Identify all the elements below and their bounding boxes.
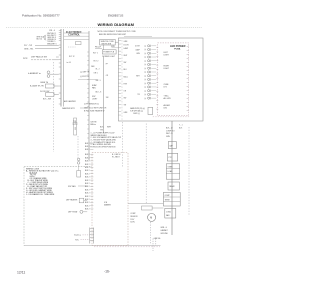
svg-text:FAN tw: FAN tw xyxy=(90,123,96,126)
freezer compartment dashed border left xyxy=(23,167,25,246)
compressor name labels xyxy=(130,213,138,223)
page number xyxy=(104,270,110,274)
wire row divider xyxy=(78,79,98,81)
svg-text:B-CASE TH-TW: B-CASE TH-TW xyxy=(30,85,44,88)
svg-text:DEF TSTAT: DEF TSTAT xyxy=(68,211,78,214)
compressor terminal cluster xyxy=(163,192,180,206)
door harness entry wire xyxy=(111,46,118,48)
svg-text:COND: COND xyxy=(166,211,172,213)
svg-text:BLK 2: BLK 2 xyxy=(85,196,90,198)
ice maker lower pin ladder xyxy=(90,228,94,244)
svg-text:60 Hz: 60 Hz xyxy=(130,222,135,224)
ice maker pin labels xyxy=(85,143,93,210)
svg-text:6 - W DOOR OPEN POSITION: 6 - W DOOR OPEN POSITION xyxy=(91,147,117,149)
svg-text:BLK 2: BLK 2 xyxy=(85,154,90,156)
svg-text:LOAD: LOAD xyxy=(168,170,173,173)
svg-text:tw 14: tw 14 xyxy=(67,61,71,64)
svg-text:BLK 2: BLK 2 xyxy=(85,199,90,201)
header separator rule xyxy=(6,27,202,29)
defrost feed labels xyxy=(112,154,120,159)
svg-text:POWER PCB: POWER PCB xyxy=(103,52,115,54)
title WIRING DIAGRAM xyxy=(98,22,135,27)
svg-text:BLK 2: BLK 2 xyxy=(85,186,90,188)
svg-text:Y - 1: Y - 1 xyxy=(179,124,183,126)
svg-text:BLK 2: BLK 2 xyxy=(85,149,90,151)
ambient thermistor RT1 xyxy=(28,71,59,78)
svg-text:WHT: WHT xyxy=(124,55,128,57)
compressor motor M1 xyxy=(142,206,164,221)
freezer light socket xyxy=(77,165,81,177)
LED power PCBA dashed enclosure xyxy=(158,43,189,116)
svg-text:MAKER: MAKER xyxy=(104,204,111,207)
svg-text:12/11: 12/11 xyxy=(17,271,25,275)
svg-text:BLK 2: BLK 2 xyxy=(85,205,90,207)
svg-text:LED POWER: LED POWER xyxy=(170,44,186,48)
harness connector P1 xyxy=(37,35,47,41)
svg-text:WTR: WTR xyxy=(23,58,28,60)
svg-text:CN1 - 6: CN1 - 6 xyxy=(49,30,55,32)
svg-text:FRZ FAN: FRZ FAN xyxy=(68,185,76,188)
svg-text:LIGHT: LIGHT xyxy=(164,55,170,57)
svg-text:th AMBIENT tw: th AMBIENT tw xyxy=(28,72,41,75)
svg-text:BLK - 8: BLK - 8 xyxy=(96,91,102,93)
main board edge connector J1 xyxy=(59,29,64,107)
svg-text:EW28BS71IS: EW28BS71IS xyxy=(108,15,124,18)
ice maker dashed enclosure xyxy=(92,153,128,246)
svg-text:BLK 2: BLK 2 xyxy=(85,170,90,172)
dispenser switch S1 xyxy=(23,56,59,60)
evap fan labels xyxy=(92,84,98,101)
svg-text:W - 2: W - 2 xyxy=(96,68,100,70)
svg-text:BLK 2: BLK 2 xyxy=(85,183,90,185)
svg-text:WHT - N: WHT - N xyxy=(166,133,173,135)
svg-text:BLK 2: BLK 2 xyxy=(85,146,90,148)
svg-text:OVER: OVER xyxy=(168,166,174,168)
fresh food harness bus xyxy=(103,56,105,133)
defrost thermostat S4 xyxy=(68,210,87,213)
svg-text:RELAY: RELAY xyxy=(169,185,175,188)
dispenser connector CN2 xyxy=(144,45,156,100)
wire color tags xyxy=(100,127,112,132)
svg-text:COMP: COMP xyxy=(130,213,136,215)
line cord connector xyxy=(95,47,102,49)
svg-text:BLK 2: BLK 2 xyxy=(85,202,90,204)
svg-text:DISP PADDLE SW: DISP PADDLE SW xyxy=(31,56,47,59)
ground terminal tags xyxy=(160,227,168,235)
svg-text:PCBA: PCBA xyxy=(174,48,181,51)
svg-text:BLK 14: BLK 14 xyxy=(37,39,43,41)
svg-text:BLK 2: BLK 2 xyxy=(85,193,90,195)
compressor ground wire xyxy=(150,222,152,244)
svg-text:TERM: TERM xyxy=(165,199,170,201)
LED board channel labels xyxy=(164,52,172,110)
wire EMI to section box xyxy=(115,36,152,42)
electronic control U1 label xyxy=(66,31,82,37)
freezer light feed wire xyxy=(77,136,79,158)
freezer light L2 xyxy=(77,158,80,164)
svg-text:ALL HYD: ALL HYD xyxy=(164,97,172,100)
LED board pin stubs xyxy=(156,47,188,111)
model number text xyxy=(108,15,124,18)
wiring code legend xyxy=(26,168,59,196)
svg-text:MULL: MULL xyxy=(124,76,129,78)
svg-text:BLK 2: BLK 2 xyxy=(85,161,90,163)
condenser fan wire dashed xyxy=(188,127,190,215)
svg-text:DAMPER MTR: DAMPER MTR xyxy=(62,107,75,110)
svg-text:WIRING DIAGRAM: WIRING DIAGRAM xyxy=(98,22,135,27)
svg-text:DEF HEATER: DEF HEATER xyxy=(66,199,78,202)
svg-text:SW: SW xyxy=(124,98,127,100)
fresh food section border xyxy=(118,38,203,121)
svg-text:BLK 2: BLK 2 xyxy=(85,157,90,159)
door heater wire tags xyxy=(179,124,183,129)
run capacitor C1 xyxy=(168,142,176,149)
thermistor chain RT2 xyxy=(74,118,77,135)
EMI filter FL1 xyxy=(100,39,116,45)
svg-text:BLK 2: BLK 2 xyxy=(85,164,90,166)
svg-text:M: M xyxy=(150,217,152,220)
svg-text:TW: TW xyxy=(100,129,103,131)
svg-text:WHT: WHT xyxy=(136,75,140,77)
wire power to bus xyxy=(102,45,104,50)
freezer compartment dashed border top xyxy=(24,166,92,168)
svg-text:CABINET: CABINET xyxy=(160,229,167,232)
door switch S3 xyxy=(40,91,59,100)
svg-text:AIR DAMPER: AIR DAMPER xyxy=(64,100,76,103)
svg-text:BLK 2: BLK 2 xyxy=(85,209,90,211)
left pin wire labels xyxy=(47,33,56,45)
defrost thermostat labels xyxy=(80,72,98,79)
svg-text:BLK 2: BLK 2 xyxy=(85,143,90,145)
svg-text:PLY - TW: PLY - TW xyxy=(24,45,32,47)
compressor bottom tag xyxy=(154,238,161,240)
svg-text:POWER LIGHT: POWER LIGHT xyxy=(102,56,115,58)
svg-text:RLY 1: RLY 1 xyxy=(93,52,98,54)
svg-text:GROUND: GROUND xyxy=(160,233,168,235)
publication number text xyxy=(22,14,60,18)
svg-text:COMP RLY: COMP RLY xyxy=(166,130,176,132)
svg-text:AUGER: AUGER xyxy=(164,104,171,107)
LED power PCBA title xyxy=(170,44,186,51)
defrost heater R2 xyxy=(66,198,87,203)
relay K1 labels xyxy=(91,52,101,93)
overload relay K2 xyxy=(166,164,179,179)
svg-text:J - ICE MAKER FILL TUBE WIRE: J - ICE MAKER FILL TUBE WIRE xyxy=(26,193,55,196)
dispenser wire labels xyxy=(135,46,141,96)
svg-text:DOOR: DOOR xyxy=(135,46,141,48)
svg-text:GRN - G: GRN - G xyxy=(160,227,167,229)
svg-text:EVAP: EVAP xyxy=(92,84,97,87)
svg-text:DOOR: DOOR xyxy=(124,44,130,46)
svg-text:BLK - 12: BLK - 12 xyxy=(166,128,173,130)
svg-text:BLK 2: BLK 2 xyxy=(85,177,90,179)
mullion heater labels xyxy=(74,234,90,242)
freezer fan M2 xyxy=(68,185,87,188)
freezer harness bus xyxy=(64,31,89,161)
svg-text:FF: FF xyxy=(106,63,108,65)
water valve assembly LV1 xyxy=(130,107,152,115)
PTC starter U3 xyxy=(167,153,177,161)
section box inner rail xyxy=(121,40,123,121)
svg-text:DISP (+): DISP (+) xyxy=(133,113,140,115)
ground strap dashes xyxy=(153,239,156,252)
svg-text:(+) DEF TH: (+) DEF TH xyxy=(80,72,90,74)
svg-text:LIGHT: LIGHT xyxy=(164,68,170,70)
svg-text:BLK - WH: BLK - WH xyxy=(43,98,52,100)
svg-text:GRN - YEL: GRN - YEL xyxy=(24,48,33,50)
power supply PS1 xyxy=(102,50,116,58)
power cord wires xyxy=(24,45,59,50)
wire drop from section box A xyxy=(145,124,147,204)
svg-text:MAIN WTR (W) (+): MAIN WTR (W) (+) xyxy=(130,107,145,110)
svg-text:B FILL TUBE HEATER W: B FILL TUBE HEATER W xyxy=(84,109,105,112)
service note text xyxy=(98,31,137,36)
ground return dashes xyxy=(94,246,160,248)
sensor row text xyxy=(73,103,107,127)
water valve legend list xyxy=(91,132,122,148)
LED box bottom dashes xyxy=(153,116,190,118)
svg-text:BEFORE SERVICING THIS UNIT: BEFORE SERVICING THIS UNIT xyxy=(99,34,127,36)
svg-text:OR 5: OR 5 xyxy=(94,73,98,75)
svg-text:RESSOR: RESSOR xyxy=(130,216,138,218)
start relay K3 xyxy=(168,182,179,190)
svg-text:RLY 2: RLY 2 xyxy=(94,60,99,62)
svg-text:LIGHT: LIGHT xyxy=(92,99,98,101)
compressor wire tags xyxy=(166,128,176,138)
svg-text:BLK 2: BLK 2 xyxy=(85,173,90,175)
date stamp xyxy=(17,271,25,275)
svg-text:NOTE: DISCONNECT POWER SUPPLY: NOTE: DISCONNECT POWER SUPPLY CORD xyxy=(98,31,137,33)
case thermostat S2 xyxy=(30,81,59,88)
svg-text:BLK 2: BLK 2 xyxy=(85,180,90,182)
svg-text:CASE TH: CASE TH xyxy=(40,81,49,84)
board strip header xyxy=(49,30,55,32)
svg-text:SW - 5: SW - 5 xyxy=(96,80,101,82)
svg-text:heater g: heater g xyxy=(74,234,81,237)
svg-text:W - NEUT: W - NEUT xyxy=(112,157,120,159)
compressor circuit bus xyxy=(171,121,173,235)
control aux connector xyxy=(67,42,81,65)
fresh food section pin stubs xyxy=(118,41,129,116)
ice maker label xyxy=(104,202,111,207)
svg-text:tw FF SENSOR tw: tw FF SENSOR tw xyxy=(84,103,100,106)
air damper label xyxy=(62,100,87,110)
svg-text:GRN SOLD WITH UNIT OR: GRN SOLD WITH UNIT OR xyxy=(84,108,107,110)
harness wire drop xyxy=(52,62,54,152)
condenser fan M3 xyxy=(165,208,176,218)
freezer compartment bottom rail xyxy=(24,245,161,247)
svg-text:TW: TW xyxy=(124,105,127,107)
svg-text:BLK 2: BLK 2 xyxy=(85,167,90,169)
wire drop from section box B xyxy=(122,122,124,167)
ice maker to compressor wire xyxy=(128,203,163,205)
svg-text:GRN-YEL: GRN-YEL xyxy=(154,238,161,240)
svg-text:BLK 2: BLK 2 xyxy=(85,189,90,191)
svg-text:Publication No. 5995585777: Publication No. 5995585777 xyxy=(22,14,60,18)
svg-text:COMP: COMP xyxy=(165,195,171,197)
svg-text:(-) FRZ TH: (-) FRZ TH xyxy=(80,76,89,78)
svg-text:SW: SW xyxy=(124,62,127,64)
svg-text:RLY 12: RLY 12 xyxy=(69,56,75,58)
svg-text:-16-: -16- xyxy=(104,270,110,274)
damper aux labels xyxy=(106,63,109,99)
